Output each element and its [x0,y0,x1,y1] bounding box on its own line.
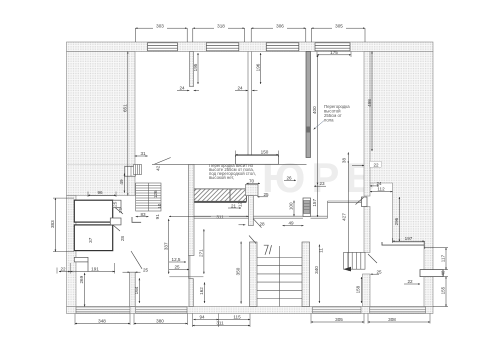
table under hanging partition [236,155,279,164]
bottom extension lines [75,314,430,328]
svg-text:305: 305 [335,317,343,322]
164 vertical dim [138,278,140,303]
175 dim under W4 [317,54,351,56]
svg-text:651: 651 [122,104,127,112]
window W5 bottom [76,307,130,313]
svg-text:498: 498 [367,99,372,107]
100 vertical dim [293,201,295,217]
svg-text:271: 271 [199,249,204,257]
svg-text:191: 191 [91,267,99,272]
wall: central upper partition stub [190,52,194,87]
svg-text:311: 311 [216,321,224,326]
31 dim mini stair [135,155,148,157]
svg-text:400: 400 [312,106,317,114]
bottom dims 305 308 [311,321,430,323]
main stair upper-left [136,183,161,211]
22 dim right wall [352,165,364,167]
wall: left narrow strip [67,196,77,307]
bottom dims 348 380 311 [75,324,250,326]
svg-text:28: 28 [120,236,125,242]
svg-text:158: 158 [355,285,360,293]
svg-text:24: 24 [376,181,382,186]
wall: left wide band [67,52,136,196]
svg-text:23: 23 [319,181,325,186]
svg-text:высокой нет,: высокой нет, [209,175,234,180]
340 vertical dim stair [318,245,320,304]
svg-text:12: 12 [237,202,242,208]
shelf in right notch room [382,242,424,245]
svg-text:318: 318 [217,23,225,28]
svg-text:150: 150 [261,150,269,155]
383 vertical dim left margin [54,198,56,252]
150 dim + counter [236,154,279,156]
wall: top exterior band [67,42,434,52]
radiator right [420,270,443,277]
svg-text:337: 337 [163,242,168,250]
jamb box room1 [113,200,121,208]
svg-text:49: 49 [119,179,124,185]
svg-text:380: 380 [156,319,164,324]
svg-text:340: 340 [314,266,319,274]
faint floor line over band [67,163,136,165]
svg-text:196: 196 [255,63,260,71]
svg-text:24: 24 [179,85,185,90]
158 vertical dim [361,277,363,303]
svg-text:21: 21 [231,204,237,209]
svg-text:96: 96 [97,190,103,195]
svg-text:112: 112 [377,187,385,192]
svg-text:22: 22 [373,163,379,168]
svg-text:175: 175 [330,50,338,55]
wall: gray partition x306-310 upper [306,52,311,158]
311 dim corridor [169,215,249,217]
step bottom-left [74,257,88,262]
stair up arrows [264,245,272,255]
bathroom room1 [74,200,112,222]
24 dim #2 [235,90,248,92]
svg-text:311: 311 [216,214,224,219]
window W6 bottom [136,307,187,313]
svg-text:22: 22 [60,267,66,272]
right margin dims 117/40/155 [424,248,448,307]
leader arrow [314,121,324,130]
svg-text:25: 25 [376,269,382,274]
extension lines misc [53,52,425,274]
svg-text:25: 25 [174,265,180,270]
svg-text:83: 83 [140,212,146,217]
small stair right room [343,252,365,271]
svg-text:348: 348 [98,319,106,324]
svg-text:94: 94 [199,315,205,320]
25 dim pier [257,196,268,198]
26 dim [284,179,296,181]
svg-text:162: 162 [199,287,204,295]
corridor top line [152,163,307,165]
38 / 427 vertical dim [347,152,349,270]
top dim row [135,28,365,42]
svg-text:31: 31 [140,151,146,156]
svg-text:25: 25 [113,201,118,207]
wall: gray partition lower piece [303,198,311,217]
svg-text:117: 117 [440,254,445,262]
svg-text:195: 195 [193,63,198,71]
wall bit below stair [132,217,141,222]
350 vertical dim stair [240,242,242,304]
70 dim [246,182,260,184]
window W7 bottom [313,307,362,313]
corridor south double line [194,201,364,218]
svg-text:100: 100 [289,202,294,210]
25 dim small stair wall [371,273,380,275]
jamb box room2 [110,218,121,225]
svg-text:11: 11 [318,248,323,253]
195 vertical dim [197,53,199,84]
25 dim wall x130 [123,271,130,273]
83 dim [136,216,149,218]
window W1 top [148,43,178,51]
svg-text:157: 157 [312,199,317,207]
white pocket for 22 dim [370,161,382,167]
niche in left band [125,166,136,176]
svg-text:ЮРБ: ЮРБ [262,154,382,201]
wall: bottom exterior band [67,307,434,314]
96 dim bathrooms [88,194,116,196]
svg-text:164: 164 [134,286,139,294]
svg-text:пола: пола [324,118,334,123]
296 vertical dim [398,197,400,242]
24 dim notch [370,185,379,187]
191 dim [70,271,115,273]
mini stair top-left [134,165,142,175]
svg-text:28: 28 [259,221,265,226]
svg-text:155: 155 [440,286,445,294]
24 dim below wall x190 [177,90,189,92]
svg-text:303: 303 [156,23,164,28]
svg-text:25: 25 [263,192,269,197]
annotation text block right [324,104,350,123]
svg-text:197: 197 [405,236,413,241]
23 dim [314,185,326,187]
49 vertical dim [123,173,125,192]
svg-text:26: 26 [286,175,292,180]
svg-text:40: 40 [440,270,445,276]
door box right wall [362,197,368,207]
svg-text:38: 38 [342,158,347,164]
112 dim notch [370,191,393,193]
annotation text block left [209,163,256,180]
svg-text:49: 49 [288,221,294,226]
svg-text:126: 126 [153,190,158,198]
svg-text:24: 24 [237,85,243,90]
269 vertical dim [84,273,86,307]
svg-text:26: 26 [118,208,123,214]
svg-text:12,5: 12,5 [172,257,181,262]
25 dim door [169,269,189,271]
wall: right strip [364,52,370,197]
21 dim under beam [228,207,241,209]
window W2 top [206,43,239,51]
svg-text:115: 115 [233,315,241,320]
22 dim bottom-left [59,271,70,273]
bottom stair [250,242,310,307]
wall: partition x130 bottom-left [130,272,136,306]
svg-text:10: 10 [157,203,162,209]
196 vertical dim [260,53,262,84]
door swing to wall x130 [131,251,142,269]
svg-text:308: 308 [388,317,396,322]
wall: thin double partition x248 [247,52,249,164]
svg-text:350: 350 [236,267,241,275]
svg-text:42: 42 [156,165,161,171]
337 vertical dim [168,219,170,274]
hanging partition beam (diagonal hatch) [194,189,246,201]
svg-text:269: 269 [79,275,84,283]
svg-text:296: 296 [394,217,399,225]
pier right of beam [246,184,259,195]
window W3 top [266,43,299,51]
bottom dims row short [194,319,251,321]
12.5 dim [169,261,186,263]
svg-text:427: 427 [342,213,347,221]
651 vertical dim in left band [127,52,129,196]
svg-text:25: 25 [143,267,149,272]
bathroom room2 [74,225,112,251]
window W8 bottom [370,307,426,313]
wall: top-right hatched block [370,52,434,307]
svg-text:22: 22 [407,279,413,284]
498 vertical dim [371,52,373,152]
wall: central partition lower x188-194 [189,165,195,256]
svg-text:37: 37 [88,237,93,243]
svg-text:306: 306 [276,23,284,28]
door swings [113,158,377,264]
197 dim [393,240,425,242]
svg-text:70: 70 [249,178,255,183]
49 dim [283,225,304,227]
window W4 top [315,43,350,51]
svg-text:305: 305 [335,23,343,28]
svg-text:383: 383 [50,220,55,228]
271 vertical dim [203,229,205,274]
22 dim radiator [404,283,420,285]
162 vertical dim [204,282,206,303]
400 / 157 vertical dim at x317 [317,55,319,217]
svg-text:91: 91 [155,214,160,220]
